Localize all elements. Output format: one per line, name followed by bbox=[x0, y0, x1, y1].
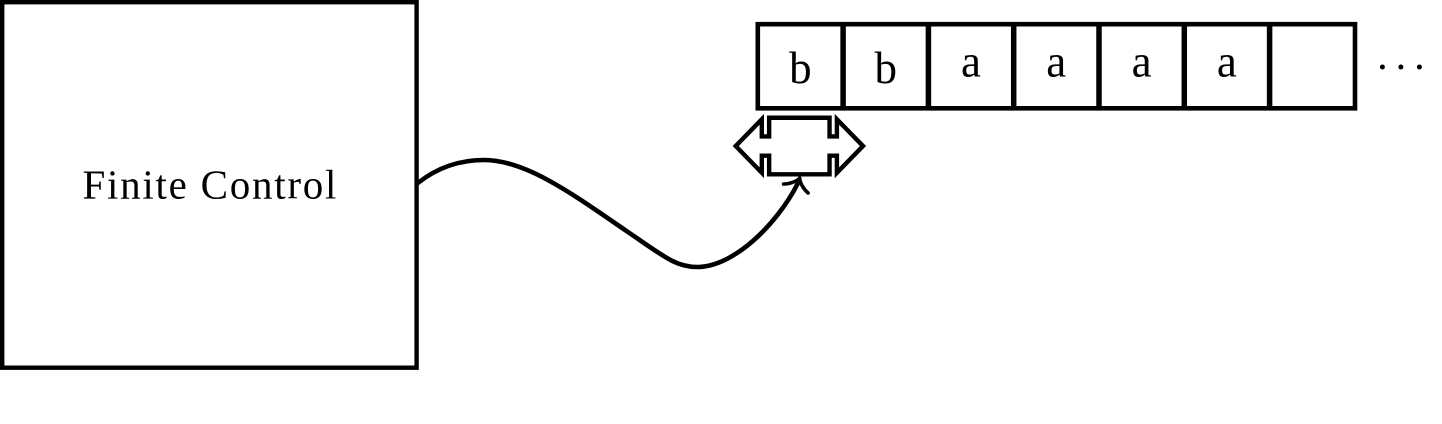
tape head symbol bbox=[736, 118, 863, 175]
svg-text:a: a bbox=[1217, 37, 1237, 87]
finite control box bbox=[2, 2, 416, 368]
ellipsis dots bbox=[1380, 65, 1385, 70]
svg-text:b: b bbox=[874, 43, 897, 93]
tape cell separator 1 bbox=[840, 24, 846, 108]
svg-text:Finite Control: Finite Control bbox=[82, 162, 338, 208]
tape cell separator 6 bbox=[1267, 24, 1273, 108]
tape cell separator 4 bbox=[1096, 24, 1102, 108]
svg-text:a: a bbox=[961, 37, 981, 87]
curved arrow from finite control to head bbox=[418, 160, 798, 267]
tape cell separator 5 bbox=[1182, 24, 1188, 108]
tape cell separator 2 bbox=[926, 24, 932, 108]
arrowhead of curved arrow bbox=[784, 174, 812, 193]
tape cell separator 3 bbox=[1011, 24, 1017, 108]
svg-text:b: b bbox=[789, 43, 812, 93]
tape outline bbox=[758, 24, 1355, 108]
svg-text:a: a bbox=[1046, 37, 1066, 87]
svg-text:a: a bbox=[1132, 37, 1152, 87]
